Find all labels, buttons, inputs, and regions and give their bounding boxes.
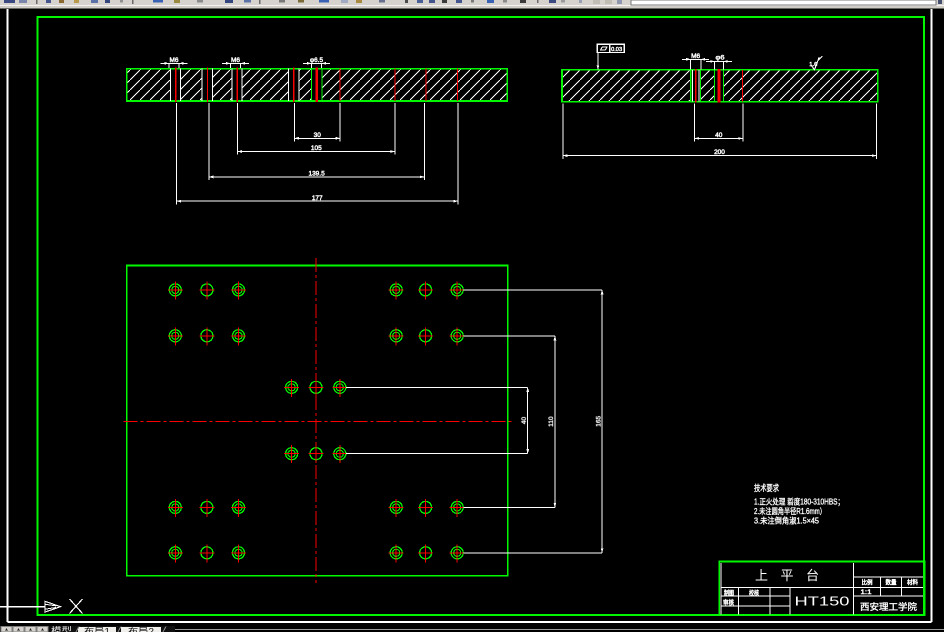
svg-text:HT150: HT150 bbox=[795, 594, 850, 609]
plan hole (457.2,552.8) bbox=[451, 547, 463, 559]
plan hole (175.3,507.4) bbox=[169, 501, 181, 513]
UCS icon X label bbox=[70, 599, 83, 614]
dim 40 right view bbox=[694, 104, 696, 142]
svg-text:3.未注倒角淑1.5×45: 3.未注倒角淑1.5×45 bbox=[754, 516, 819, 526]
status divider line bbox=[175, 629, 944, 631]
svg-text:布局1: 布局1 bbox=[84, 626, 110, 632]
svg-text:110: 110 bbox=[548, 416, 555, 427]
plan hole (425.6,507.4) bbox=[420, 501, 432, 513]
plan hole (175.3,552.8) bbox=[169, 547, 181, 559]
plan hole (206.9,507.4) bbox=[201, 501, 213, 513]
plan hole (316.0,387.3) bbox=[310, 381, 322, 393]
plan hole (396.2,552.8) bbox=[390, 547, 402, 559]
section hole at x=237.2 (m6) bbox=[232, 69, 242, 100]
svg-text:模型: 模型 bbox=[51, 626, 72, 632]
svg-text:1:1: 1:1 bbox=[861, 589, 872, 596]
svg-text:2.未注圆角半径R1.6mm）: 2.未注圆角半径R1.6mm） bbox=[754, 506, 826, 516]
dimension 177 bbox=[177, 200, 458, 202]
section hole at x=395.1 (cl) bbox=[394, 69, 396, 101]
svg-text:M6: M6 bbox=[691, 53, 700, 60]
svg-text:139.5: 139.5 bbox=[308, 171, 325, 178]
callout M6 at x=235.5 bbox=[222, 62, 249, 64]
dimension 30 bbox=[294, 137, 340, 139]
plan hole (175.3,289.9) bbox=[169, 284, 181, 296]
plan hole (425.6,289.9) bbox=[420, 284, 432, 296]
svg-text:数量: 数量 bbox=[886, 579, 897, 587]
section hole at x=425.9 (cl) bbox=[425, 69, 427, 101]
plan hole (457.2,507.4) bbox=[451, 501, 463, 513]
svg-text:105: 105 bbox=[311, 145, 322, 152]
callout M6 at x=174.0 bbox=[161, 62, 188, 64]
plan view plate outline bbox=[127, 266, 508, 576]
svg-text:1.6: 1.6 bbox=[809, 62, 817, 68]
plan hole (206.9,552.8) bbox=[201, 547, 213, 559]
dimension 139.5 bbox=[209, 176, 425, 178]
UCS icon X axis bbox=[0, 606, 45, 608]
plan hole (206.9,289.9) bbox=[201, 284, 213, 296]
plan hole (425.6,552.8) bbox=[420, 547, 432, 559]
svg-text:177: 177 bbox=[312, 195, 323, 202]
svg-text:165: 165 bbox=[595, 416, 602, 427]
svg-text:比例: 比例 bbox=[862, 579, 873, 587]
plate horizontal centerline bbox=[124, 421, 515, 423]
toolbar combo field bbox=[631, 0, 936, 5]
svg-text:西安理工学院: 西安理工学院 bbox=[860, 601, 917, 612]
plan hole (457.2,289.9) bbox=[451, 284, 463, 296]
section hole at x=293.8 (m6n) bbox=[289, 69, 299, 100]
callout phi6 right bar bbox=[706, 61, 732, 63]
section hole at x=340.1 (cl) bbox=[339, 69, 341, 101]
plan hole (238.5,552.8) bbox=[233, 547, 245, 559]
plan hole (396.2,289.9) bbox=[390, 284, 402, 296]
svg-text:上平台: 上平台 bbox=[755, 568, 819, 583]
section hole at x=207.4 (m6n) bbox=[202, 69, 212, 100]
svg-text:材料: 材料 bbox=[907, 579, 918, 587]
leaders to vertical dims bbox=[346, 386, 528, 388]
leader line from frame to bar bbox=[597, 53, 599, 70]
sheet border (white) bbox=[7, 9, 9, 622]
svg-text:0.03: 0.03 bbox=[611, 47, 622, 53]
extension lines below left bar bbox=[293, 103, 295, 142]
svg-text:φ6: φ6 bbox=[716, 55, 725, 62]
plan hole (238.5,507.4) bbox=[233, 501, 245, 513]
layout tabs bbox=[78, 627, 116, 632]
right section view: hatched bar bbox=[562, 70, 878, 102]
flatness tolerance frame bbox=[597, 44, 624, 52]
right bar M6 hole bbox=[691, 71, 701, 101]
svg-text:布局2: 布局2 bbox=[128, 626, 154, 632]
svg-text:1.正火处理 硩度180-310HBS；: 1.正火处理 硩度180-310HBS； bbox=[754, 497, 844, 507]
bottom layout-tab strip bbox=[0, 626, 175, 632]
callout M6 right bar bbox=[682, 58, 709, 60]
svg-text:校核: 校核 bbox=[749, 588, 759, 597]
svg-text:技术要求: 技术要求 bbox=[754, 483, 779, 493]
plan hole (238.5,335.8) bbox=[233, 330, 245, 342]
svg-text:200: 200 bbox=[714, 149, 725, 156]
svg-text:40: 40 bbox=[521, 417, 528, 425]
plan hole (316.0,453.7) bbox=[310, 448, 322, 460]
plan hole (206.9,335.8) bbox=[201, 330, 213, 342]
title block white grid bbox=[720, 563, 722, 615]
callout &#966;6.5 at x=316.5 bbox=[303, 62, 330, 64]
plan hole (291.6,387.3) bbox=[286, 381, 298, 393]
plate vertical centerline bbox=[315, 258, 317, 583]
svg-text:M6: M6 bbox=[169, 57, 178, 64]
plan hole (238.5,289.9) bbox=[233, 284, 245, 296]
dim 200 right view bbox=[562, 104, 564, 159]
left section view: hatched bar bbox=[127, 69, 508, 101]
svg-text:40: 40 bbox=[715, 132, 723, 139]
plan hole (291.6,453.7) bbox=[286, 448, 298, 460]
section hole at x=316.7 (thru) bbox=[311, 69, 322, 100]
vertical dim 110 bbox=[554, 336, 556, 508]
title block outer green bbox=[719, 562, 924, 616]
plan hole (396.2,507.4) bbox=[390, 501, 402, 513]
svg-text:30: 30 bbox=[314, 132, 322, 139]
surface roughness symbol bbox=[811, 57, 819, 70]
section hole at x=457.4 (cl) bbox=[456, 69, 458, 101]
plan hole (339.8,387.3) bbox=[334, 381, 346, 393]
svg-text:制图: 制图 bbox=[724, 588, 734, 597]
plan hole (425.6,335.8) bbox=[420, 330, 432, 342]
toolbar strip (bottom edge of app toolbar) bbox=[0, 0, 944, 5]
section hole at x=175.7 (m6) bbox=[171, 69, 181, 100]
vertical dim 40 bbox=[527, 387, 529, 453]
plan hole (339.8,453.7) bbox=[334, 448, 346, 460]
plan hole (175.3,335.8) bbox=[169, 330, 181, 342]
dimension 105 bbox=[238, 151, 396, 153]
vertical dim 165 bbox=[601, 290, 603, 553]
svg-text:M6: M6 bbox=[231, 57, 240, 64]
svg-text:审核: 审核 bbox=[723, 597, 734, 606]
plan hole (457.2,335.8) bbox=[451, 330, 463, 342]
right bar phi6 hole bbox=[715, 71, 724, 101]
svg-text:φ6.5: φ6.5 bbox=[310, 57, 323, 64]
right bar centerline hole bbox=[742, 70, 744, 102]
plan hole (396.2,335.8) bbox=[390, 330, 402, 342]
